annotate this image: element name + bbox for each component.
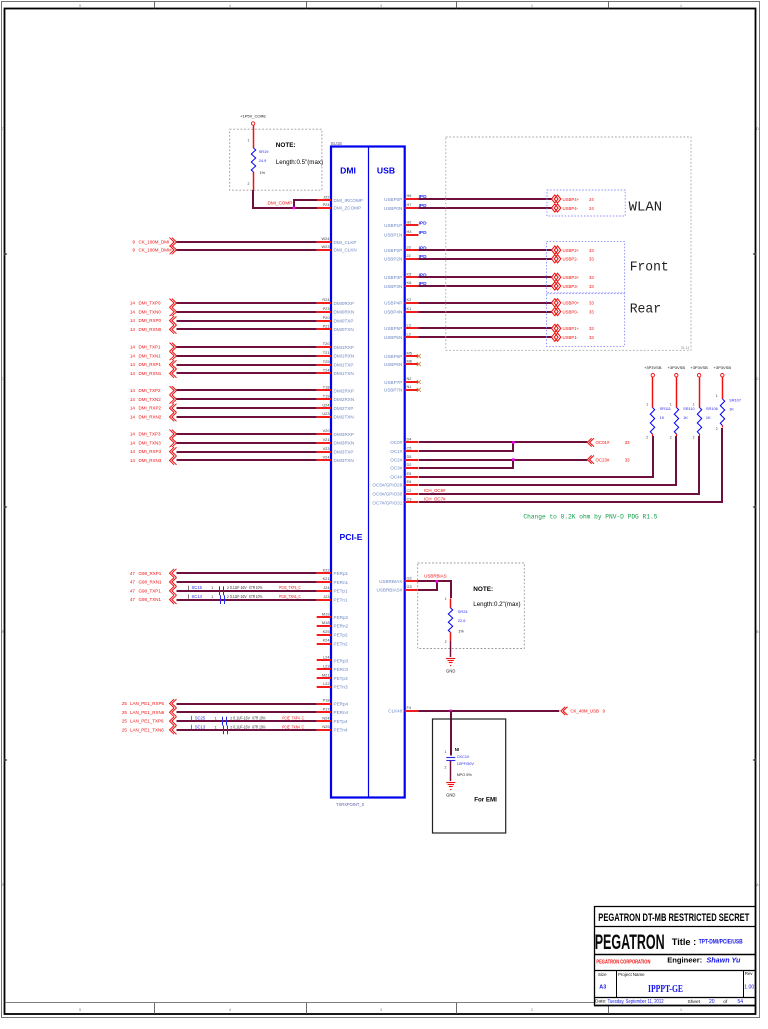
svg-text:DMI3TXN: DMI3TXN <box>334 458 354 463</box>
wire DMI_TXN3 <box>130 438 317 447</box>
svg-text:14: 14 <box>130 458 136 463</box>
svg-text:P23: P23 <box>323 306 330 311</box>
svg-text:Front: Front <box>630 261 669 276</box>
pin USBP7P (N2) <box>384 376 418 385</box>
svg-text:OC1#: OC1# <box>390 449 402 454</box>
svg-text:USBP2P: USBP2P <box>384 248 402 253</box>
For EMI box <box>433 719 506 833</box>
note box (Length:0.2"(max)) <box>418 563 525 649</box>
svg-text:2: 2 <box>531 1008 533 1012</box>
svg-text:DMI: DMI <box>340 166 356 176</box>
svg-text:20: 20 <box>709 999 715 1005</box>
svg-text:0.1UF-16V: 0.1UF-16V <box>230 585 247 590</box>
svg-text:OC6#/GPIO30: OC6#/GPIO30 <box>372 492 402 497</box>
svg-text:14: 14 <box>130 440 136 445</box>
svg-text:31.11: 31.11 <box>681 346 690 350</box>
svg-text:USBRBIAS: USBRBIAS <box>424 574 446 579</box>
pin DMI3RXN (V21) <box>317 437 354 446</box>
svg-text:L23: L23 <box>323 664 330 669</box>
svg-text:DMI2TXN: DMI2TXN <box>334 415 354 420</box>
svg-text:25: 25 <box>122 710 128 715</box>
pin USBP0N (H7) <box>384 202 418 211</box>
svg-text:33: 33 <box>589 326 594 331</box>
wire DMI_TXP0 <box>130 299 317 308</box>
svg-text:SR111: SR111 <box>660 406 671 411</box>
svg-text:USBP2+: USBP2+ <box>563 248 580 253</box>
svg-text:T24: T24 <box>323 368 331 373</box>
svg-text:OC01#: OC01# <box>596 440 610 445</box>
svg-text:1: 1 <box>646 403 648 407</box>
svg-text:DMI0RXP: DMI0RXP <box>334 301 354 306</box>
svg-text:D: D <box>756 127 759 131</box>
svg-text:of: of <box>723 999 728 1005</box>
svg-text:P24: P24 <box>323 202 331 207</box>
svg-text:T18: T18 <box>323 385 330 390</box>
svg-text:1K: 1K <box>660 415 665 420</box>
svg-text:TPT-DMI/PCIE/USB: TPT-DMI/PCIE/USB <box>699 939 743 946</box>
svg-text:SC14: SC14 <box>192 594 203 599</box>
svg-text:Tuesday, September 11, 2012: Tuesday, September 11, 2012 <box>608 999 664 1005</box>
svg-text:P21: P21 <box>323 324 330 329</box>
svg-text:K2: K2 <box>407 297 412 302</box>
svg-text:DMI0TXN: DMI0TXN <box>334 327 354 332</box>
svg-text:2: 2 <box>646 436 648 440</box>
svg-text:V20: V20 <box>323 428 331 433</box>
svg-text:Size: Size <box>598 972 607 977</box>
svg-text:N24: N24 <box>322 715 330 720</box>
wire DMI_TXP3 <box>130 430 317 439</box>
svg-text:1: 1 <box>248 139 250 143</box>
pin PETn3 (L22) <box>317 681 348 690</box>
svg-text:IPD: IPD <box>419 230 428 236</box>
svg-text:USB: USB <box>377 166 395 176</box>
svg-text:PCIE_TXN1_C: PCIE_TXN1_C <box>279 594 301 599</box>
wire USBP4N to port USBP0- <box>418 308 594 316</box>
pin USBP7N (N1) <box>384 384 418 393</box>
wire CK_100M_DMI# <box>132 246 316 255</box>
wire OC6# (ICH_OC6#) to SR106 <box>419 436 699 494</box>
wire G98_TXN1 / PCIE_TXN1_C <box>130 595 317 604</box>
svg-text:DMI_TXN0: DMI_TXN0 <box>139 309 162 314</box>
svg-text:PEGATRON: PEGATRON <box>595 930 665 954</box>
svg-text:1: 1 <box>670 403 672 407</box>
svg-text:M19: M19 <box>322 611 330 616</box>
svg-text:14: 14 <box>130 318 136 323</box>
pin USBP4P (K2) <box>384 297 418 306</box>
svg-text:PERp2: PERp2 <box>334 615 349 620</box>
pin USBRBIAS# (G3) <box>377 584 419 593</box>
svg-text:+3P3VSB: +3P3VSB <box>714 365 732 370</box>
pin PERp2 (M19) <box>317 611 349 620</box>
svg-text:0.1UF-16V: 0.1UF-16V <box>230 594 247 599</box>
svg-text:1: 1 <box>693 403 695 407</box>
pin DMI3TXP (V23) <box>317 446 354 455</box>
svg-text:K24: K24 <box>323 638 331 643</box>
svg-text:CK_100M_DMI: CK_100M_DMI <box>139 240 170 245</box>
wire USBRBIAS <box>418 574 451 599</box>
wire LAN_PE1_RXP6 <box>122 699 317 708</box>
port group box WLAN <box>547 190 625 216</box>
svg-text:CLK48: CLK48 <box>388 709 402 714</box>
svg-text:T21: T21 <box>323 350 330 355</box>
svg-text:G98_RXP1: G98_RXP1 <box>139 571 162 576</box>
svg-text:G2: G2 <box>407 576 412 581</box>
svg-text:DMI_TXN1: DMI_TXN1 <box>139 353 162 358</box>
resistor SR24 22.6 1% <box>445 597 469 657</box>
svg-text:SR106: SR106 <box>706 406 718 411</box>
svg-text:LAN_PE1_TXP6: LAN_PE1_TXP6 <box>130 719 164 724</box>
pin USBP2N (J2) <box>384 253 418 262</box>
svg-text:L3: L3 <box>407 323 411 328</box>
title block <box>594 906 755 1006</box>
svg-text:L2: L2 <box>407 331 411 336</box>
svg-text:DMI_CLKN: DMI_CLKN <box>334 248 357 253</box>
svg-text:Engineer:: Engineer: <box>667 955 702 964</box>
svg-text:V21: V21 <box>323 437 330 442</box>
svg-text:U23: U23 <box>322 411 329 416</box>
svg-text:V23: V23 <box>323 446 330 451</box>
pin USBP2P (J3) <box>384 244 418 253</box>
svg-text:2: 2 <box>445 640 447 644</box>
svg-text:47: 47 <box>130 588 136 593</box>
svg-text:Length:0.5"(max): Length:0.5"(max) <box>276 159 323 166</box>
svg-text:J3: J3 <box>407 244 411 249</box>
svg-text:P18: P18 <box>323 698 330 703</box>
pin OC3# (D2) <box>390 462 418 471</box>
svg-text:USBP4+: USBP4+ <box>563 197 580 202</box>
svg-text:M5: M5 <box>407 350 412 355</box>
pin OC4# (E5) <box>390 471 418 480</box>
svg-text:25: 25 <box>122 701 128 706</box>
port OC01# <box>587 438 630 446</box>
pin DMI1TXN (T24) <box>317 368 354 377</box>
wire CLK48 to CK_48M_USB <box>418 707 605 715</box>
svg-text:IPD: IPD <box>419 221 428 227</box>
svg-text:M6: M6 <box>407 358 412 363</box>
svg-text:Length:0.2"(max): Length:0.2"(max) <box>473 601 520 608</box>
svg-text:USBRBIAS#: USBRBIAS# <box>377 588 403 593</box>
svg-text:1%: 1% <box>260 170 266 175</box>
svg-text:SR107: SR107 <box>729 398 741 403</box>
pin PERn2 (M18) <box>317 620 349 629</box>
pin OC1# (C5) <box>390 445 418 454</box>
wire USBP4P to port USBP0+ <box>418 299 594 307</box>
svg-text:2: 2 <box>670 436 672 440</box>
pin PERp4 (P18) <box>317 698 349 707</box>
pin OC2# (D5) <box>390 454 418 463</box>
pin DMI0TXP (P20) <box>317 315 354 324</box>
pin PETp2 (K25) <box>317 629 348 638</box>
svg-text:PERp1: PERp1 <box>334 571 349 576</box>
svg-text:DMI_RXP1: DMI_RXP1 <box>139 362 162 367</box>
pin DMI0TXN (P21) <box>317 324 354 333</box>
svg-text:USBP4N: USBP4N <box>384 309 402 314</box>
pin USBP5N (L2) <box>384 331 418 340</box>
wire OC1# joins OC0# <box>419 442 513 451</box>
svg-text:K21: K21 <box>323 576 330 581</box>
svg-text:DMI3RXP: DMI3RXP <box>334 432 354 437</box>
pin PETn2 (K24) <box>317 638 348 647</box>
svg-text:DMI_TXP1: DMI_TXP1 <box>139 345 162 350</box>
svg-text:1: 1 <box>445 597 447 601</box>
svg-text:DMI0TXP: DMI0TXP <box>334 318 354 323</box>
svg-text:LAN_PE1_RXN6: LAN_PE1_RXN6 <box>130 710 165 715</box>
svg-text:47: 47 <box>130 580 136 585</box>
wire G98_RXN1 <box>130 578 317 587</box>
svg-text:DMI1TXP: DMI1TXP <box>334 362 354 367</box>
svg-text:14: 14 <box>130 327 136 332</box>
pin USBRBIAS (G2) <box>379 576 418 585</box>
svg-text:33: 33 <box>589 248 594 253</box>
svg-text:33: 33 <box>589 284 594 289</box>
svg-text:1.00: 1.00 <box>744 984 754 990</box>
svg-text:USBP1+: USBP1+ <box>563 326 580 331</box>
svg-text:LAN_PE1_RXP6: LAN_PE1_RXP6 <box>130 701 165 706</box>
wire OC4# to SR111 <box>419 436 653 477</box>
svg-text:DMI_TXP0: DMI_TXP0 <box>139 301 162 306</box>
svg-text:H3: H3 <box>407 229 412 234</box>
svg-text:22.6: 22.6 <box>458 618 466 623</box>
svg-text:9: 9 <box>132 240 135 245</box>
svg-text:PCI-E: PCI-E <box>340 532 363 542</box>
svg-text:U24: U24 <box>322 402 330 407</box>
svg-text:T19: T19 <box>323 394 330 399</box>
wire DMI_RXP2 <box>130 404 317 413</box>
wire USBP2N to port USBP2- <box>418 255 594 263</box>
svg-text:DMI_ZCOMP: DMI_ZCOMP <box>334 206 362 211</box>
pin DMI1TXP (T25) <box>317 359 354 368</box>
svg-text:47: 47 <box>130 571 136 576</box>
wire LAN_PE1_TXN6 / PCIE_TXN4_C <box>122 726 317 735</box>
wire USBP0P to port USBP4+ <box>418 195 594 203</box>
svg-text:C: C <box>1 377 4 381</box>
svg-text:USBP7P: USBP7P <box>384 380 402 385</box>
svg-text:+3P3VSB: +3P3VSB <box>644 365 662 370</box>
svg-text:33: 33 <box>589 309 594 314</box>
svg-text:14: 14 <box>130 353 136 358</box>
svg-text:2: 2 <box>248 182 250 186</box>
svg-text:33: 33 <box>589 275 594 280</box>
power +3P3VSB / resistor SR106 1K <box>690 365 717 440</box>
svg-text:USBP0P: USBP0P <box>384 197 402 202</box>
pin DMI3TXN (V24) <box>317 455 354 464</box>
svg-text:OC2#: OC2# <box>390 457 402 462</box>
svg-text:PETn3: PETn3 <box>334 685 348 690</box>
svg-text:USBP2-: USBP2- <box>563 257 579 262</box>
svg-text:Rear: Rear <box>630 303 662 318</box>
svg-text:N2: N2 <box>407 376 412 381</box>
svg-text:SC15: SC15 <box>192 585 203 590</box>
pin OC0# (D4) <box>390 437 418 446</box>
svg-text:USBP3P: USBP3P <box>384 275 402 280</box>
svg-text:D: D <box>1 127 4 131</box>
svg-text:5: 5 <box>79 1008 81 1012</box>
svg-text:14: 14 <box>130 432 136 437</box>
svg-text:G98_TXN1: G98_TXN1 <box>139 597 162 602</box>
svg-text:T20: T20 <box>323 341 331 346</box>
svg-text:4: 4 <box>229 4 231 8</box>
svg-text:1: 1 <box>716 394 718 398</box>
svg-text:G98_TXP1: G98_TXP1 <box>139 588 162 593</box>
svg-text:+3P3VSB: +3P3VSB <box>690 365 708 370</box>
svg-text:DMI_RXN3: DMI_RXN3 <box>139 458 162 463</box>
svg-text:C5: C5 <box>407 445 412 450</box>
svg-text:USBP0-: USBP0- <box>563 309 579 314</box>
svg-text:24: 24 <box>589 206 594 211</box>
wire G98_RXP1 <box>130 569 317 578</box>
note box (Length:0.5"(max)) <box>230 129 323 190</box>
svg-text:USBP1-: USBP1- <box>563 335 579 340</box>
svg-text:V24: V24 <box>323 455 331 460</box>
svg-text:PETp4: PETp4 <box>334 719 348 724</box>
wire DMI_TXN2 <box>130 395 317 404</box>
svg-text:+1P5V_CORE: +1P5V_CORE <box>240 113 266 118</box>
pin USBP3P (K5) <box>384 272 418 281</box>
svg-text:DMI_TXP3: DMI_TXP3 <box>139 432 162 437</box>
svg-text:USBP5N: USBP5N <box>384 335 402 340</box>
wire OC7# (ICH_OC7#) to SR107 <box>419 428 722 502</box>
port group box Front <box>547 242 625 293</box>
svg-text:OC4#: OC4# <box>390 474 402 479</box>
svg-text:X7R 10%: X7R 10% <box>252 724 266 729</box>
svg-text:K6: K6 <box>407 280 412 285</box>
svg-text:USBP6N: USBP6N <box>384 362 402 367</box>
svg-text:USBP6P: USBP6P <box>384 354 402 359</box>
svg-text:GND: GND <box>446 669 455 674</box>
svg-text:M21: M21 <box>322 672 330 677</box>
svg-text:2: 2 <box>531 4 533 8</box>
svg-text:1: 1 <box>680 1008 682 1012</box>
pin DMI_CLKP (W24) <box>317 236 357 245</box>
pin DMI1RXN (T21) <box>317 350 354 359</box>
pin PETp4 (N24) <box>317 715 348 724</box>
svg-text:PETn1: PETn1 <box>334 597 348 602</box>
svg-text:SR110: SR110 <box>683 406 695 411</box>
svg-text:DMI0RXN: DMI0RXN <box>334 310 355 315</box>
svg-text:14: 14 <box>130 345 136 350</box>
pin DMI_ZCOMP (P24) <box>317 202 361 211</box>
svg-text:14: 14 <box>130 406 136 411</box>
svg-text:DMI_TXN2: DMI_TXN2 <box>139 397 162 402</box>
svg-text:X7R 10%: X7R 10% <box>252 716 266 721</box>
junction DMI_COMP <box>293 207 296 210</box>
dashed region box (USB ports) <box>446 137 691 350</box>
pin USBP6P (M5) <box>384 350 418 359</box>
svg-text:J2: J2 <box>407 253 411 258</box>
svg-text:J22: J22 <box>323 194 329 199</box>
svg-text:NPO 5%: NPO 5% <box>457 772 473 777</box>
svg-text:K22: K22 <box>323 567 330 572</box>
svg-text:33: 33 <box>625 457 630 462</box>
svg-text:47: 47 <box>130 597 136 602</box>
svg-text:E5: E5 <box>407 471 412 476</box>
wire DMI_RXN1 <box>130 369 317 378</box>
svg-text:1K: 1K <box>729 407 734 412</box>
svg-text:USBP0+: USBP0+ <box>563 301 580 306</box>
junction CLK48/EMI <box>450 710 453 713</box>
wire LAN_PE1_TXP6 / PCIE_TXP4_C <box>122 717 317 726</box>
svg-text:PERp3: PERp3 <box>334 658 349 663</box>
svg-text:T25: T25 <box>323 359 330 364</box>
svg-text:OC5#/GPIO29: OC5#/GPIO29 <box>372 483 402 488</box>
pin DMI3RXP (V20) <box>317 428 354 437</box>
svg-text:Change to 8.2K ohm by PNV-D PD: Change to 8.2K ohm by PNV-D PDG R1.5 <box>523 514 657 521</box>
svg-text:+3P3VSB: +3P3VSB <box>668 365 686 370</box>
pin DMI2TXN (U23) <box>317 411 354 420</box>
svg-text:W24: W24 <box>322 236 331 241</box>
svg-text:G3: G3 <box>407 584 412 589</box>
pin DMI0RXP (R24) <box>317 297 354 306</box>
svg-text:For EMI: For EMI <box>474 797 497 804</box>
svg-text:J24: J24 <box>323 585 330 590</box>
svg-text:PCIE_TXP1_C: PCIE_TXP1_C <box>279 585 301 590</box>
junction OC01# <box>512 441 515 444</box>
svg-text:USBRBIAS: USBRBIAS <box>379 579 402 584</box>
svg-text:Title :: Title : <box>672 937 696 947</box>
wire to EMI cap <box>450 711 452 756</box>
svg-text:33: 33 <box>589 257 594 262</box>
svg-text:DMI_COMP: DMI_COMP <box>268 201 293 206</box>
wire USBP5N to port USBP1- <box>418 333 594 341</box>
svg-text:SR19: SR19 <box>259 149 269 154</box>
svg-text:Sheet: Sheet <box>688 999 701 1005</box>
svg-text:1K: 1K <box>683 415 688 420</box>
pin OC5#/GPIO29 (E6) <box>372 479 418 488</box>
svg-text:H6: H6 <box>407 193 412 198</box>
svg-text:J23: J23 <box>323 594 329 599</box>
svg-text:USBP3-: USBP3- <box>563 284 579 289</box>
svg-text:ICH_OC7#: ICH_OC7# <box>424 497 446 502</box>
svg-text:K25: K25 <box>323 629 330 634</box>
pin PETn4 (N25) <box>317 724 348 733</box>
pin USBP6N (M6) <box>384 358 418 367</box>
svg-text:USBP0N: USBP0N <box>384 206 402 211</box>
svg-text:PETn2: PETn2 <box>334 641 348 646</box>
pin DMI2TXP (U24) <box>317 402 354 411</box>
wire OC0# to port OC01# <box>419 441 587 443</box>
svg-text:4: 4 <box>229 1008 231 1012</box>
svg-text:PERn4: PERn4 <box>334 710 349 715</box>
svg-text:LAN_PE1_TXN6: LAN_PE1_TXN6 <box>130 728 164 733</box>
svg-text:IPPPT-GE: IPPPT-GE <box>648 983 683 995</box>
svg-text:NOTE:: NOTE: <box>276 142 296 149</box>
svg-text:DMI3RXN: DMI3RXN <box>334 441 355 446</box>
junction OC23# <box>512 458 515 461</box>
power +1P5V_CORE <box>240 113 266 125</box>
svg-text:1K: 1K <box>706 415 711 420</box>
pin PETp1 (J24) <box>317 585 348 594</box>
svg-text:D4: D4 <box>407 437 413 442</box>
svg-text:DMI_RXN2: DMI_RXN2 <box>139 415 162 420</box>
svg-text:A3: A3 <box>599 984 606 990</box>
svg-text:SC25: SC25 <box>195 716 206 721</box>
svg-text:NI: NI <box>455 747 459 752</box>
svg-text:H2: H2 <box>407 220 412 225</box>
svg-text:PERn3: PERn3 <box>334 667 349 672</box>
port OC23# <box>587 455 630 463</box>
wire CK_100M_DMI <box>132 238 316 247</box>
svg-text:CK_48M_USB: CK_48M_USB <box>570 709 599 714</box>
svg-text:OC23#: OC23# <box>596 457 610 462</box>
capacitor SC15 0.1UF-16V <box>189 585 301 595</box>
svg-text:X7R 10%: X7R 10% <box>249 594 263 599</box>
svg-text:OC3#: OC3# <box>390 466 402 471</box>
pin DMI_CLKN (W23) <box>317 244 357 253</box>
svg-text:2: 2 <box>445 766 447 770</box>
svg-text:14: 14 <box>130 301 136 306</box>
wire USBP2P to port USBP2+ <box>418 246 594 254</box>
svg-text:W23: W23 <box>322 244 330 249</box>
